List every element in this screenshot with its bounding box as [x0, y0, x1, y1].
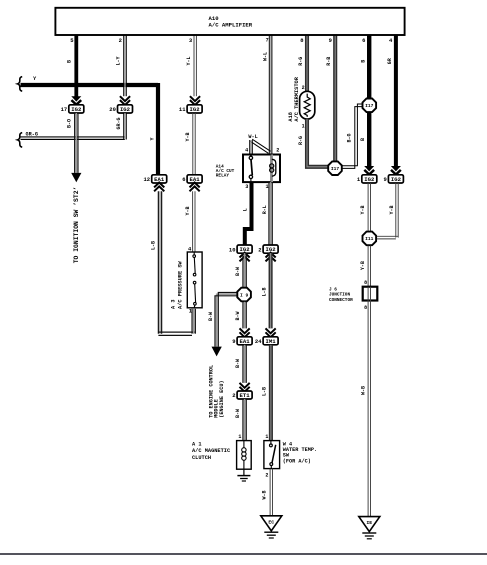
svg-text:I17: I17	[331, 166, 340, 172]
svg-text:9: 9	[329, 37, 332, 44]
svg-text:6: 6	[182, 176, 185, 183]
svg-text:3: 3	[245, 184, 248, 190]
svg-text:8: 8	[364, 280, 367, 286]
svg-text:B: B	[67, 60, 73, 63]
svg-text:20: 20	[109, 106, 116, 113]
svg-text:I17: I17	[365, 103, 374, 109]
svg-text:7: 7	[266, 38, 269, 44]
svg-text:B: B	[360, 138, 366, 141]
svg-text:Y-B: Y-B	[185, 132, 191, 141]
svg-text:4: 4	[245, 147, 248, 153]
svg-text:ET1: ET1	[240, 392, 251, 399]
svg-text:A/C AMPLIFIER: A/C AMPLIFIER	[209, 22, 253, 29]
svg-text:IM1: IM1	[266, 338, 277, 345]
svg-text:L: L	[242, 208, 248, 211]
svg-text:R-B: R-B	[326, 57, 332, 66]
svg-text:IE: IE	[366, 520, 372, 526]
svg-text:2: 2	[232, 392, 235, 399]
svg-text:B-W: B-W	[235, 311, 241, 320]
svg-text:B-W: B-W	[208, 312, 214, 321]
svg-text:B-W: B-W	[235, 267, 241, 276]
svg-text:1: 1	[265, 434, 268, 440]
svg-text:2: 2	[276, 147, 279, 153]
svg-text:TO IGNITION SW ’ST2’: TO IGNITION SW ’ST2’	[73, 187, 80, 264]
svg-text:GR-G: GR-G	[26, 131, 38, 137]
svg-text:GR: GR	[387, 58, 393, 64]
svg-text:10: 10	[229, 246, 236, 253]
svg-text:W-L: W-L	[262, 52, 268, 61]
svg-text:Y-L: Y-L	[186, 56, 192, 65]
svg-text:R-L: R-L	[262, 205, 268, 214]
svg-text:2: 2	[265, 473, 268, 479]
svg-text:1: 1	[302, 124, 305, 130]
svg-text:R-G: R-G	[298, 57, 304, 66]
svg-text:12: 12	[143, 176, 150, 183]
svg-text:2: 2	[302, 85, 305, 91]
svg-text:EC: EC	[268, 519, 274, 525]
svg-text:I 9: I 9	[240, 292, 249, 298]
svg-text:B: B	[360, 60, 366, 63]
svg-text:IG2: IG2	[391, 176, 402, 183]
svg-text:B-G: B-G	[347, 133, 353, 142]
svg-text:Y-B: Y-B	[185, 206, 191, 215]
svg-text:B-W: B-W	[235, 409, 241, 418]
svg-text:9: 9	[232, 338, 235, 345]
svg-text:W-B: W-B	[262, 490, 268, 499]
svg-text:B-W: B-W	[235, 359, 241, 368]
svg-text:IG2: IG2	[71, 106, 82, 113]
svg-text:EA1: EA1	[240, 338, 251, 345]
svg-text:R-G: R-G	[298, 136, 304, 145]
svg-text:GR-G: GR-G	[116, 117, 122, 129]
svg-text:1: 1	[238, 434, 241, 440]
svg-text:9: 9	[383, 176, 386, 183]
svg-text:2: 2	[119, 37, 122, 44]
svg-text:1: 1	[265, 184, 268, 190]
svg-text:L-B: L-B	[151, 241, 157, 250]
svg-text:Y: Y	[150, 137, 156, 140]
svg-text:I11: I11	[365, 236, 374, 242]
svg-text:IG2: IG2	[364, 176, 375, 183]
svg-text:Y-B: Y-B	[389, 205, 395, 214]
svg-text:IG2: IG2	[190, 106, 201, 113]
svg-text:IG2: IG2	[120, 106, 131, 113]
svg-text:W-B: W-B	[360, 386, 366, 395]
svg-text:17: 17	[61, 106, 68, 113]
svg-text:Y-B: Y-B	[360, 261, 366, 270]
svg-text:2: 2	[258, 246, 261, 253]
svg-text:Y-B: Y-B	[360, 205, 366, 214]
svg-text:L-B: L-B	[261, 287, 267, 296]
svg-text:11: 11	[179, 106, 186, 113]
svg-text:L-Y: L-Y	[116, 56, 122, 65]
svg-text:8: 8	[364, 305, 367, 311]
svg-text:24: 24	[255, 338, 262, 345]
svg-text:6: 6	[362, 37, 365, 44]
svg-text:B-O: B-O	[67, 119, 73, 128]
svg-text:W-L: W-L	[248, 134, 257, 140]
svg-text:L-B: L-B	[262, 387, 268, 396]
